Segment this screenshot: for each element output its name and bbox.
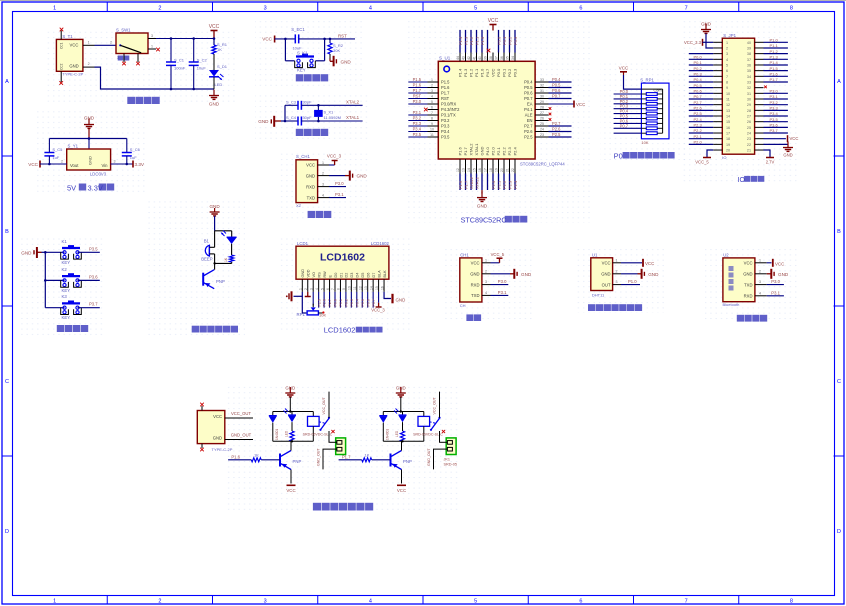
svg-text:P3.1: P3.1 bbox=[413, 110, 422, 115]
svg-text:40: 40 bbox=[478, 56, 482, 60]
JP1 right pin 31 bbox=[755, 89, 788, 94]
svg-text:VCC: VCC bbox=[209, 24, 220, 30]
svg-text:P2.0: P2.0 bbox=[694, 140, 703, 145]
svg-text:P3.0/RX: P3.0/RX bbox=[441, 102, 457, 107]
LCD pin 16 bbox=[380, 279, 391, 298]
svg-text:TYPE-C-2P: TYPE-C-2P bbox=[62, 72, 83, 77]
svg-text:GND: GND bbox=[648, 272, 659, 277]
JP1 right pin 29 bbox=[755, 100, 788, 105]
svg-text:P0.4: P0.4 bbox=[355, 299, 359, 306]
svg-text:22: 22 bbox=[511, 168, 515, 172]
LCD pin 7 bbox=[331, 279, 337, 307]
svg-text:7: 7 bbox=[431, 111, 433, 115]
svg-text:VCC: VCC bbox=[744, 261, 753, 266]
svg-text:D7: D7 bbox=[372, 273, 376, 278]
svg-text:KEY: KEY bbox=[62, 260, 71, 265]
svg-text:9: 9 bbox=[726, 86, 728, 90]
collector wire bbox=[290, 441, 292, 450]
U1 bottom pin 12 bbox=[456, 159, 463, 190]
connector TYPE-C-2P (output) bbox=[197, 406, 232, 452]
svg-text:39: 39 bbox=[747, 46, 751, 50]
svg-text:P2.5: P2.5 bbox=[694, 111, 703, 116]
svg-text:C: C bbox=[837, 379, 841, 385]
svg-text:18: 18 bbox=[726, 137, 730, 141]
svg-text:5: 5 bbox=[474, 6, 477, 12]
svg-text:P0.0: P0.0 bbox=[496, 68, 501, 77]
svg-text:8: 8 bbox=[337, 288, 341, 290]
GND power port (LDO block) bbox=[84, 116, 95, 139]
svg-text:7: 7 bbox=[685, 599, 688, 605]
svg-text:S_T1: S_T1 bbox=[62, 34, 73, 39]
VCC port left of LDO bbox=[28, 160, 66, 168]
junction node VCC rail bbox=[213, 37, 216, 40]
svg-text:P1.4: P1.4 bbox=[458, 68, 463, 77]
key K1 bbox=[45, 239, 81, 265]
svg-text:13: 13 bbox=[364, 286, 368, 290]
net VCC_OUT vertical wire bbox=[322, 392, 329, 418]
LDO top rail wire bbox=[49, 137, 126, 149]
U1 top pin 41 bbox=[473, 30, 480, 61]
U1 left pin 9 bbox=[408, 121, 438, 126]
U1 bottom pin 17 bbox=[484, 159, 488, 190]
svg-text:P0.5: P0.5 bbox=[694, 83, 703, 88]
svg-text:P3.3: P3.3 bbox=[441, 124, 450, 129]
resistor S_R1 1K bbox=[212, 39, 228, 71]
pin 2 GND wire S_T1 to bottom rail bbox=[83, 62, 214, 89]
svg-text:D: D bbox=[5, 529, 9, 535]
svg-text:P2.2: P2.2 bbox=[502, 180, 507, 189]
svg-text:2: 2 bbox=[726, 46, 728, 50]
svg-text:29: 29 bbox=[747, 103, 751, 107]
svg-text:VCC: VCC bbox=[397, 488, 406, 493]
svg-text:GND: GND bbox=[778, 272, 789, 277]
svg-text:P0: P0 bbox=[614, 152, 623, 161]
svg-text:3: 3 bbox=[431, 89, 433, 93]
svg-text:P1.7: P1.7 bbox=[413, 88, 422, 93]
svg-text:GND_OUT: GND_OUT bbox=[231, 433, 252, 438]
svg-text:1K: 1K bbox=[365, 452, 370, 457]
label 按键电路 bbox=[57, 325, 88, 332]
svg-text:P0.6: P0.6 bbox=[694, 89, 703, 94]
svg-text:24: 24 bbox=[540, 128, 544, 132]
U1 top pin 35 bbox=[506, 30, 513, 61]
RP1 input P0.7 bbox=[614, 123, 642, 128]
label 复位电路 bbox=[296, 74, 328, 81]
svg-text:S_D1: S_D1 bbox=[217, 64, 228, 69]
svg-text:VCC: VCC bbox=[645, 261, 654, 266]
svg-text:P0.0: P0.0 bbox=[694, 55, 703, 60]
svg-text:RST: RST bbox=[441, 96, 450, 101]
LCD1602 module bbox=[296, 241, 390, 279]
svg-text:S_U1: S_U1 bbox=[439, 56, 451, 61]
svg-text:38: 38 bbox=[747, 52, 751, 56]
svg-text:P3.5: P3.5 bbox=[413, 132, 422, 137]
relay bottom rail wire bbox=[383, 440, 424, 442]
VCC power port (power block) bbox=[209, 24, 220, 39]
svg-text:5: 5 bbox=[320, 288, 324, 290]
net GND_OUT wire bbox=[225, 433, 253, 440]
svg-text:GND: GND bbox=[521, 272, 532, 277]
net P3.0 (pin3) bbox=[329, 181, 346, 186]
svg-text:9: 9 bbox=[431, 122, 433, 126]
svg-text:3: 3 bbox=[759, 280, 761, 284]
reset left vertical wire bbox=[284, 39, 286, 61]
svg-text:42: 42 bbox=[467, 56, 471, 60]
svg-text:P1.0: P1.0 bbox=[480, 68, 485, 77]
svg-text:VCC: VCC bbox=[491, 68, 496, 77]
svg-text:PNP: PNP bbox=[216, 279, 225, 284]
svg-text:2: 2 bbox=[304, 288, 308, 290]
svg-text:4: 4 bbox=[431, 95, 433, 99]
svg-text:VO: VO bbox=[312, 272, 316, 278]
svg-text:14: 14 bbox=[369, 286, 373, 290]
svg-text:P3.4: P3.4 bbox=[413, 127, 422, 132]
svg-text:P1.0: P1.0 bbox=[480, 36, 485, 45]
JP1 right pin 33 bbox=[755, 77, 788, 82]
regulator S_Y1 LDO3V3 bbox=[67, 144, 111, 177]
alarm bottom node wire bbox=[213, 254, 231, 265]
svg-text:P2.7: P2.7 bbox=[552, 121, 561, 126]
svg-text:XTAL1: XTAL1 bbox=[474, 176, 479, 189]
svg-text:SRD-05VDC-SL-C: SRD-05VDC-SL-C bbox=[303, 433, 333, 437]
svg-text:VCC_5: VCC_5 bbox=[491, 252, 505, 257]
switch bottom stubs bbox=[124, 54, 138, 63]
svg-text:32: 32 bbox=[540, 84, 544, 88]
svg-text:P1.4: P1.4 bbox=[458, 36, 463, 45]
svg-text:VDD: VDD bbox=[307, 269, 311, 277]
U1 left pin 6 bbox=[428, 106, 439, 110]
svg-text:GND_OUT: GND_OUT bbox=[427, 448, 431, 466]
U1 right pin 30 bbox=[535, 94, 571, 99]
LCD pin 6 bbox=[326, 279, 332, 307]
svg-text:15: 15 bbox=[375, 286, 379, 290]
label 继电器控制电路 bbox=[313, 503, 373, 511]
svg-text:P1.6: P1.6 bbox=[441, 85, 450, 90]
alarm top node wire bbox=[215, 231, 232, 248]
svg-text:VCC: VCC bbox=[775, 261, 784, 266]
svg-text:P2.4: P2.4 bbox=[694, 117, 703, 122]
JP1 right pin 34 bbox=[755, 72, 788, 77]
label STC89C52RC主芯片 bbox=[461, 216, 528, 225]
GND port (alarm) bbox=[209, 204, 220, 231]
svg-text:P2.3: P2.3 bbox=[507, 180, 512, 189]
svg-text:14: 14 bbox=[467, 168, 471, 172]
svg-text:P2.6: P2.6 bbox=[524, 129, 533, 134]
svg-text:GND: GND bbox=[601, 272, 610, 277]
svg-text:11: 11 bbox=[353, 286, 357, 290]
key trunk wire bbox=[44, 251, 47, 308]
svg-text:LCD1602: LCD1602 bbox=[371, 241, 390, 246]
svg-text:1: 1 bbox=[322, 161, 324, 165]
no-connect X top of S_T1 bbox=[60, 28, 64, 32]
VCC_3 port (pin1) bbox=[327, 154, 342, 166]
svg-text:2: 2 bbox=[322, 171, 324, 175]
svg-text:19: 19 bbox=[726, 143, 730, 147]
svg-text:GND: GND bbox=[357, 174, 368, 179]
LCD pin 13 bbox=[364, 279, 370, 307]
svg-text:10uF: 10uF bbox=[197, 66, 207, 71]
svg-text:VCC: VCC bbox=[619, 66, 629, 71]
svg-text:18: 18 bbox=[489, 168, 493, 172]
svg-text:GND: GND bbox=[743, 272, 752, 277]
net P3.6 wire bbox=[78, 274, 100, 280]
svg-text:43: 43 bbox=[462, 56, 466, 60]
svg-text:7: 7 bbox=[726, 75, 728, 79]
JP1 left pin 17 bbox=[689, 128, 723, 133]
svg-text:2: 2 bbox=[158, 599, 161, 605]
svg-text:P2.3: P2.3 bbox=[694, 123, 703, 128]
svg-text:44: 44 bbox=[456, 56, 460, 60]
U1 bottom pin 15 bbox=[473, 159, 480, 190]
svg-text:P1.3: P1.3 bbox=[463, 68, 468, 77]
svg-text:P0.3: P0.3 bbox=[694, 72, 703, 77]
svg-text:30pF: 30pF bbox=[302, 100, 312, 105]
svg-text:GND: GND bbox=[470, 272, 479, 277]
svg-text:TXD: TXD bbox=[471, 293, 479, 298]
svg-text:RXD: RXD bbox=[744, 294, 753, 299]
svg-text:23: 23 bbox=[540, 133, 544, 137]
svg-text:P1.6: P1.6 bbox=[458, 146, 463, 155]
U1 right pin 28 bbox=[535, 106, 548, 110]
U1 bottom pin 16 bbox=[478, 159, 482, 190]
relay top rail wire bbox=[383, 410, 424, 412]
svg-text:P4.0: P4.0 bbox=[485, 146, 490, 155]
svg-text:1: 1 bbox=[726, 41, 728, 45]
JP1 right pin 39 bbox=[755, 43, 788, 48]
svg-text:16: 16 bbox=[380, 286, 384, 290]
JP1 left pin 5 bbox=[689, 60, 723, 65]
U2 pin 4 bbox=[755, 291, 767, 295]
relay top rail wire bbox=[273, 410, 314, 412]
svg-text:P0.6: P0.6 bbox=[552, 88, 561, 93]
pin 3 wire (S_CH1) bbox=[318, 182, 329, 186]
svg-text:P0.0: P0.0 bbox=[334, 299, 338, 306]
svg-text:GND: GND bbox=[480, 147, 485, 156]
potentiometer RP1 10K bbox=[297, 304, 327, 318]
svg-text:TYPE-C-2P: TYPE-C-2P bbox=[212, 447, 233, 452]
svg-text:LCD1602: LCD1602 bbox=[324, 326, 356, 335]
svg-text:3: 3 bbox=[309, 288, 313, 290]
svg-text:DHT11: DHT11 bbox=[592, 292, 605, 297]
svg-text:27: 27 bbox=[540, 111, 544, 115]
svg-text:B: B bbox=[5, 229, 9, 235]
svg-text:P0.1: P0.1 bbox=[339, 299, 343, 306]
resistor network S_RP1 10K bbox=[640, 78, 669, 146]
svg-text:30: 30 bbox=[540, 95, 544, 99]
net P3.1 (CH1 pin4) bbox=[491, 290, 509, 295]
U1 bottom pin 18 bbox=[489, 159, 496, 190]
svg-text:15: 15 bbox=[473, 168, 477, 172]
svg-text:RST: RST bbox=[413, 94, 422, 99]
switch pin 3 wire to VCC rail bbox=[148, 34, 214, 39]
svg-text:GND: GND bbox=[477, 204, 488, 209]
svg-text:S_C2: S_C2 bbox=[197, 58, 208, 63]
svg-text:STC89C52RC_LQFP44: STC89C52RC_LQFP44 bbox=[520, 162, 565, 167]
crystal S_X1 11.0592M bbox=[315, 104, 341, 122]
svg-text:P3.7: P3.7 bbox=[770, 128, 779, 133]
CH1 pin 3 bbox=[482, 280, 491, 284]
svg-text:Vout: Vout bbox=[70, 163, 79, 168]
svg-text:28: 28 bbox=[540, 106, 544, 110]
svg-text:P3.1/TX: P3.1/TX bbox=[441, 113, 456, 118]
svg-text:VCC: VCC bbox=[28, 162, 38, 167]
svg-text:1: 1 bbox=[485, 258, 487, 262]
svg-text:VCC_OUT: VCC_OUT bbox=[231, 411, 251, 416]
svg-text:16: 16 bbox=[726, 126, 730, 130]
GND port right of LCD bbox=[393, 294, 406, 304]
svg-text:S_CH1: S_CH1 bbox=[296, 154, 310, 159]
svg-text:BEEP: BEEP bbox=[201, 256, 213, 261]
LCD pin 3 bbox=[309, 279, 313, 305]
svg-text:20: 20 bbox=[726, 149, 730, 153]
transistor Q PNP (alarm) bbox=[203, 263, 225, 288]
resistor S_R2 30K bbox=[328, 38, 344, 59]
svg-text:P4.7: P4.7 bbox=[485, 68, 490, 77]
svg-text:P3.1: P3.1 bbox=[770, 94, 779, 99]
svg-text:XZ: XZ bbox=[296, 203, 302, 208]
svg-text:U1: U1 bbox=[592, 252, 598, 257]
svg-text:RW: RW bbox=[323, 271, 327, 278]
svg-text:P3.7: P3.7 bbox=[89, 302, 98, 307]
U1 bottom pin 21 bbox=[506, 159, 513, 190]
U1 right pin 27 bbox=[535, 111, 548, 115]
U1 right pin 23 bbox=[535, 132, 571, 137]
key K2 bbox=[45, 267, 81, 293]
JP1 left pin 3 bbox=[689, 53, 723, 55]
LCD pin 1 bbox=[294, 279, 307, 313]
crystal left vertical wire bbox=[284, 105, 286, 121]
relay bottom rail wire bbox=[273, 440, 314, 442]
flyback diode 1N4007 bbox=[379, 412, 389, 442]
RP1 input P0.5 bbox=[614, 114, 642, 119]
svg-text:8: 8 bbox=[431, 117, 433, 121]
svg-text:4: 4 bbox=[369, 6, 372, 12]
svg-text:1: 1 bbox=[616, 258, 618, 262]
svg-text:7: 7 bbox=[685, 6, 688, 12]
svg-text:RST: RST bbox=[338, 33, 347, 38]
transistor PNP (relay) bbox=[391, 451, 412, 470]
svg-text:P3.1: P3.1 bbox=[498, 290, 507, 295]
JP1 left pin 12 bbox=[689, 100, 723, 105]
U1 right pin 24 bbox=[535, 127, 571, 132]
svg-text:37: 37 bbox=[747, 58, 751, 62]
svg-text:35: 35 bbox=[747, 69, 751, 73]
svg-text:22: 22 bbox=[747, 143, 751, 147]
CH1 pin 4 bbox=[482, 291, 491, 295]
U1 left pin 1 bbox=[408, 77, 438, 82]
pin 4 wire (S_CH1) bbox=[318, 193, 329, 197]
U1 left pin 8 bbox=[408, 116, 438, 121]
switch pin 1 stub with no-connect bbox=[148, 45, 156, 50]
VCC port (U2 pin1) bbox=[767, 259, 785, 267]
svg-text:VCC_OUT: VCC_OUT bbox=[322, 397, 326, 415]
svg-text:VCC: VCC bbox=[790, 136, 799, 141]
svg-text:5: 5 bbox=[726, 63, 728, 67]
svg-text:XTAL2: XTAL2 bbox=[346, 100, 360, 105]
svg-text:RS: RS bbox=[317, 272, 321, 278]
svg-text:LCD1602: LCD1602 bbox=[320, 252, 365, 264]
label LCD1602显示模块 bbox=[324, 326, 383, 335]
svg-text:P0.3: P0.3 bbox=[513, 68, 518, 77]
svg-text:35: 35 bbox=[506, 56, 510, 60]
svg-text:P0.2: P0.2 bbox=[507, 68, 512, 77]
VCC_5 port (JP1 pin20) bbox=[695, 150, 722, 164]
U1 right pin 26 bbox=[535, 117, 548, 121]
U1(DHT11) pin 1 bbox=[613, 258, 621, 262]
svg-text:38: 38 bbox=[489, 56, 493, 60]
svg-text:P2.3: P2.3 bbox=[507, 146, 512, 155]
connector CH1 serial bbox=[460, 252, 482, 308]
svg-text:P3.0: P3.0 bbox=[413, 99, 422, 104]
label P0口上拉电阻电路 bbox=[614, 152, 675, 161]
terminal designator JK1 SRD-05 bbox=[444, 458, 458, 467]
svg-text:3: 3 bbox=[151, 34, 153, 38]
svg-text:P3.6: P3.6 bbox=[89, 274, 98, 279]
VCC port (reset) bbox=[262, 36, 274, 43]
svg-text:VCC_3: VCC_3 bbox=[371, 308, 385, 313]
svg-text:EA: EA bbox=[527, 102, 533, 107]
svg-text:P0.4: P0.4 bbox=[694, 77, 703, 82]
net P3.1 (pin4) bbox=[329, 192, 346, 197]
svg-text:D2: D2 bbox=[345, 273, 349, 278]
svg-text:1: 1 bbox=[53, 6, 56, 12]
svg-text:P1.1: P1.1 bbox=[770, 43, 779, 48]
key K3 bbox=[45, 294, 81, 320]
U1(DHT11) pin 3 bbox=[613, 280, 621, 284]
pin 2 wire (S_CH1) bbox=[318, 171, 329, 175]
JP1 left pin 14 bbox=[689, 111, 723, 116]
svg-text:S_C6: S_C6 bbox=[130, 147, 141, 152]
svg-text:P2.4: P2.4 bbox=[513, 180, 518, 189]
LCD pin 12 bbox=[358, 279, 364, 307]
module U2 bluetooth bbox=[723, 252, 755, 307]
svg-text:P0.7: P0.7 bbox=[620, 123, 629, 128]
svg-text:PNP: PNP bbox=[293, 459, 302, 464]
svg-text:P2.0: P2.0 bbox=[491, 180, 496, 189]
svg-text:P1.1: P1.1 bbox=[474, 68, 479, 77]
label 串口 bbox=[466, 314, 481, 321]
svg-text:P1.3: P1.3 bbox=[770, 55, 779, 60]
GND port (pin2) bbox=[329, 171, 367, 181]
buzzer B1 BEEP bbox=[201, 238, 214, 261]
svg-text:P2.7: P2.7 bbox=[694, 100, 703, 105]
svg-text:P1.4: P1.4 bbox=[770, 60, 779, 65]
no-connect X bottom of S_T1 bbox=[59, 81, 63, 85]
relay LED indicator bbox=[284, 409, 297, 438]
svg-text:K2: K2 bbox=[62, 267, 68, 272]
VCC port (pull-up) bbox=[619, 66, 642, 90]
svg-text:1K: 1K bbox=[224, 257, 228, 262]
svg-text:S_K1: S_K1 bbox=[297, 51, 308, 56]
U1 left pin 11 bbox=[408, 132, 438, 137]
svg-text:13: 13 bbox=[726, 109, 730, 113]
svg-text:CC1: CC1 bbox=[60, 42, 64, 49]
svg-text:29: 29 bbox=[540, 100, 544, 104]
emitter wire to VCC bbox=[286, 470, 295, 494]
terminal wiring to switch bbox=[440, 431, 441, 442]
svg-text:VCC_3.3: VCC_3.3 bbox=[684, 40, 702, 45]
svg-text:11: 11 bbox=[430, 133, 434, 137]
U2 pin 1 bbox=[755, 258, 767, 262]
svg-text:D1: D1 bbox=[339, 273, 343, 278]
svg-text:P0.2: P0.2 bbox=[507, 36, 512, 45]
svg-text:11.0592M: 11.0592M bbox=[324, 115, 342, 120]
VCC_5 port (CH1 pin1) bbox=[491, 252, 505, 263]
label 晶振电路 bbox=[296, 129, 328, 136]
svg-text:P2.5: P2.5 bbox=[524, 135, 533, 140]
capacitor S_C1 100nF bbox=[166, 39, 176, 90]
U1 top pin 39 bbox=[484, 30, 488, 61]
